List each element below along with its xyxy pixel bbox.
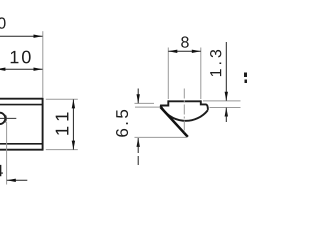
vertical centerline of side view — [183, 89, 185, 133]
cut-off text dots at right edge — [244, 73, 247, 78]
dimension 6.5 (arrows outside) — [137, 89, 140, 166]
dimension line 20 (cut off at left) — [0, 35, 43, 38]
extension line 1.3 bottom — [210, 107, 241, 109]
step edge line (lower inner line) — [0, 143, 43, 145]
thread leader line with arrow — [7, 179, 28, 182]
dim text 20 (partially cut) — [0, 17, 6, 28]
dim text 10 — [11, 51, 31, 64]
profile: right step — [201, 100, 208, 110]
extension line for top width dim (right edge) — [42, 31, 44, 97]
profile: left step — [161, 100, 169, 107]
nut body outline: right edge — [42, 98, 44, 151]
thread hole circle (minor dia) — [0, 113, 5, 124]
profile: top flat — [168, 100, 201, 102]
thread label M4 (partially cut) — [0, 165, 3, 176]
extension lines for 8 dim — [167, 48, 169, 100]
dim text 6.5 (rotated) — [116, 110, 128, 137]
thread outer arc (major dia) — [5, 115, 6, 123]
extension line 6.5 bottom (to spring tip) — [135, 136, 188, 138]
nut body outline: bottom edge — [0, 149, 43, 151]
extension line 6.5 top — [135, 102, 155, 104]
extension line left tip — [135, 106, 160, 108]
dim text 8 — [181, 36, 189, 47]
nut body outline: top edge — [0, 98, 43, 100]
extension line for thread dim (tangent of hole) — [6, 122, 8, 185]
extension lines for 11 dim — [46, 98, 78, 100]
dim text 1.3 (rotated) — [210, 50, 221, 76]
profile: bottom cylindrical arc — [161, 106, 208, 121]
extension line 1.3 top — [203, 100, 241, 102]
leaf spring — [161, 107, 188, 137]
hole centerline horizontal — [0, 117, 16, 119]
dimension line 8 — [168, 50, 201, 53]
dimension line 10 — [0, 68, 43, 71]
dimension 1.3 (arrows outside) — [225, 42, 228, 122]
step edge line (upper inner line) — [0, 104, 43, 106]
dim text 11 (rotated) — [56, 113, 69, 135]
dimension line 11 (vertical) — [72, 99, 75, 149]
